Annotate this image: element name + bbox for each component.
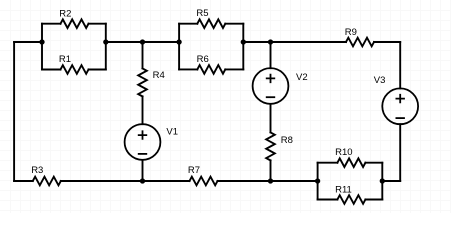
svg-text:V2: V2 bbox=[296, 72, 308, 83]
wire top rail left segment bbox=[14, 41, 42, 43]
svg-text:R2: R2 bbox=[59, 8, 71, 19]
svg-text:V1: V1 bbox=[166, 126, 178, 137]
svg-text:R6: R6 bbox=[197, 54, 209, 65]
resistor R3 bbox=[33, 177, 61, 186]
resistor R7 bbox=[190, 177, 218, 186]
svg-text:V3: V3 bbox=[374, 75, 386, 86]
svg-text:R7: R7 bbox=[188, 165, 200, 176]
resistor R10 bbox=[318, 158, 383, 167]
wire R2-R1 box left vertical bbox=[41, 24, 43, 70]
resistor R2 bbox=[42, 19, 106, 28]
node I (left of R10-R11 box) bbox=[315, 178, 320, 183]
resistor R4 bbox=[138, 42, 147, 124]
resistor R6 bbox=[179, 65, 243, 74]
resistor R11 bbox=[318, 195, 383, 204]
svg-text:R5: R5 bbox=[196, 8, 208, 19]
wire R5-R6 box right vertical bbox=[242, 24, 244, 70]
wire top rail middle segment bbox=[106, 41, 179, 43]
node B (right of R2-R1 box) bbox=[103, 39, 108, 44]
wire right side vertical lower bbox=[399, 124, 401, 181]
resistor R9 bbox=[346, 38, 374, 47]
svg-text:R4: R4 bbox=[153, 70, 165, 81]
resistor R8 bbox=[266, 132, 275, 181]
svg-text:R1: R1 bbox=[59, 54, 71, 65]
node E (right of R5-R6 box) bbox=[241, 39, 246, 44]
node J (right of R10-R11 box) bbox=[380, 178, 385, 183]
wire R2-R1 box right vertical bbox=[105, 24, 107, 70]
node C (top of R4) bbox=[140, 39, 145, 44]
node A (left of R2-R1 box) bbox=[39, 39, 44, 44]
wire top rail segment to R9 bbox=[243, 41, 346, 43]
node D (left of R5-R6 box) bbox=[176, 39, 181, 44]
wire R10-R11 box right vertical bbox=[381, 163, 383, 200]
wire left side vertical bbox=[13, 42, 15, 181]
resistor R5 bbox=[179, 19, 243, 28]
node H (bottom of R8) bbox=[268, 178, 273, 183]
svg-text:R3: R3 bbox=[31, 165, 43, 176]
wire top rail right segment after R9 bbox=[374, 41, 400, 43]
svg-text:R9: R9 bbox=[345, 27, 357, 38]
wire R10-R11 box left vertical bbox=[317, 163, 319, 200]
voltage source V1 bbox=[125, 124, 161, 181]
wire bottom rail left of R3 bbox=[14, 180, 33, 182]
wire bottom rail R7 to R10 box bbox=[218, 180, 318, 182]
svg-text:R10: R10 bbox=[335, 147, 352, 158]
resistor R1 bbox=[42, 65, 106, 74]
voltage source V3 bbox=[382, 88, 418, 124]
svg-text:R8: R8 bbox=[281, 135, 293, 146]
wire R5-R6 box left vertical bbox=[178, 24, 180, 70]
voltage source V2 bbox=[253, 42, 289, 132]
svg-text:R11: R11 bbox=[335, 184, 352, 195]
wire bottom rail right segment bbox=[382, 180, 400, 182]
wire right side vertical upper bbox=[399, 42, 401, 88]
node F (top of V2) bbox=[268, 39, 273, 44]
wire bottom rail R3 to R7 bbox=[61, 180, 190, 182]
node G (bottom of V1) bbox=[140, 178, 145, 183]
